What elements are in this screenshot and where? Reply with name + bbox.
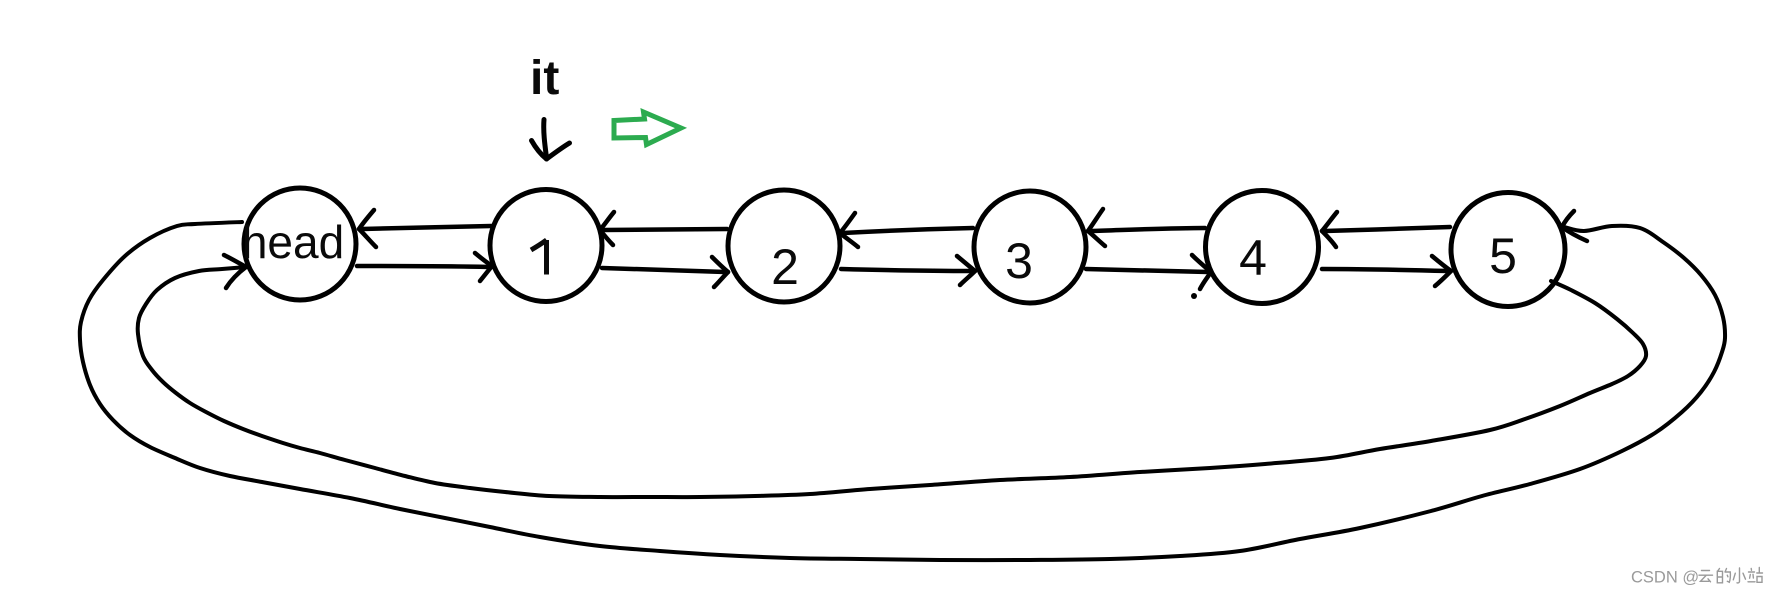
node 2 bbox=[728, 190, 840, 302]
node 4 bbox=[1206, 191, 1319, 304]
svg-text:2: 2 bbox=[771, 239, 799, 295]
wire next head-to-1 bbox=[357, 253, 492, 281]
wire prev 5-to-4 bbox=[1322, 212, 1450, 247]
wire loop head-prev-to-5 (outer) bbox=[80, 222, 1725, 560]
arrowhead loop-into-head bbox=[224, 255, 246, 288]
svg-text:3: 3 bbox=[1005, 233, 1033, 289]
svg-text:5: 5 bbox=[1489, 228, 1517, 284]
arrow green-right bbox=[614, 112, 681, 145]
node 1 bbox=[490, 190, 602, 302]
wire loop 5-next-to-head (inner) bbox=[138, 267, 1646, 497]
svg-text:it: it bbox=[530, 52, 559, 105]
svg-text:4: 4 bbox=[1239, 230, 1267, 286]
arrowhead loop-into-5 bbox=[1562, 211, 1587, 241]
node head bbox=[242, 188, 356, 300]
wire prev 2-to-1 bbox=[600, 212, 727, 245]
node 5 bbox=[1451, 193, 1565, 307]
wire prev 4-to-3 bbox=[1088, 209, 1205, 246]
hanzi zhan bbox=[1748, 568, 1763, 583]
wire next 2-to-3 bbox=[841, 256, 975, 285]
node 3 bbox=[974, 191, 1086, 303]
wire prev 3-to-2 bbox=[840, 213, 973, 247]
wire next 1-to-2 bbox=[602, 257, 728, 287]
junction dot near 4 bbox=[1191, 293, 1197, 299]
arrow it-down bbox=[532, 120, 570, 160]
wire next 3-to-4 bbox=[1086, 255, 1211, 289]
wire next 4-to-5 bbox=[1322, 256, 1451, 286]
svg-text:head: head bbox=[242, 216, 344, 268]
hanzi yun bbox=[1699, 571, 1713, 582]
hanzi de bbox=[1717, 569, 1730, 583]
wire prev 1-to-head bbox=[359, 210, 491, 247]
svg-text:CSDN @: CSDN @ bbox=[1631, 569, 1699, 587]
hanzi xiao bbox=[1733, 568, 1745, 583]
